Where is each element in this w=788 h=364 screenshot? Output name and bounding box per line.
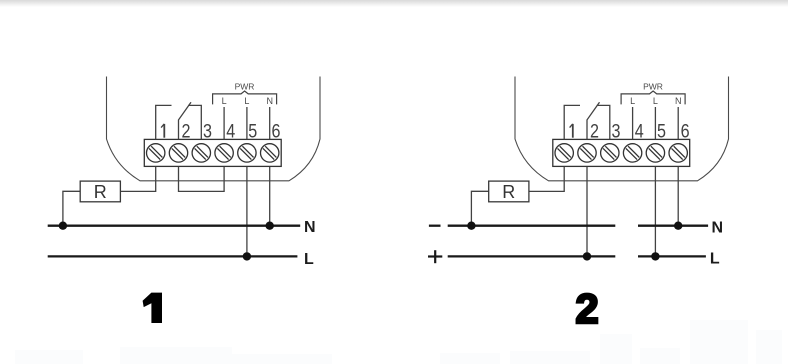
svg-text:5: 5 bbox=[248, 120, 257, 142]
wire stub terminal 4 (diagram 1) bbox=[223, 107, 225, 139]
terminal 1 screw bbox=[147, 144, 165, 162]
svg-text:4: 4 bbox=[226, 120, 235, 142]
node B junction dot (diagram 2) bbox=[467, 222, 475, 230]
plus symbol (diagram 2) bbox=[428, 250, 442, 263]
svg-text:N: N bbox=[304, 219, 316, 236]
resistor R (diagram 1) bbox=[80, 181, 120, 202]
terminal 4 screw (diagram 2) bbox=[623, 144, 641, 162]
svg-text:2: 2 bbox=[181, 120, 190, 142]
wire terminal 2 to plus line (diagram 2) bbox=[586, 162, 588, 256]
wire stub terminal 6 (diagram 1) bbox=[269, 107, 271, 139]
svg-text:5: 5 bbox=[657, 120, 666, 142]
device enclosure (diagram 2) bbox=[515, 77, 729, 181]
terminal 2 screw bbox=[169, 144, 187, 162]
terminal 4 screw bbox=[215, 144, 233, 162]
relay contact bracket terminal 1 (diagram 1) bbox=[156, 105, 172, 139]
L supply line segment (diagram 2) bbox=[638, 255, 706, 257]
svg-text:2: 2 bbox=[575, 285, 598, 332]
svg-text:N: N bbox=[266, 96, 273, 106]
relay switch arm terminal 2 (diagram 1) bbox=[179, 102, 192, 139]
resistor R (diagram 2) bbox=[489, 181, 529, 202]
node junction dot terminal 6 on N line (diagram 2) bbox=[674, 222, 682, 230]
node junction dot terminal 5 on L line (diagram 2) bbox=[651, 252, 659, 260]
svg-text:L: L bbox=[222, 96, 227, 106]
wire terminal 5 to L line (diagram 2) bbox=[654, 162, 656, 256]
relay contact bracket terminal 1 (diagram 2) bbox=[564, 105, 580, 139]
terminal block (diagram 1) bbox=[144, 139, 281, 166]
wire jumper terminal 2 to terminal 4 (diagram 1) bbox=[179, 162, 225, 191]
plus supply line (diagram 2) bbox=[448, 255, 616, 257]
wire resistor R to node A (diagram 1) bbox=[63, 191, 80, 225]
wire terminal 1 to resistor R (diagram 2) bbox=[529, 162, 564, 191]
svg-text:6: 6 bbox=[272, 120, 281, 142]
relay contact bracket terminal 3 (diagram 1) bbox=[188, 105, 201, 139]
minus symbol (diagram 2) bbox=[429, 225, 441, 227]
wire stub terminal 5 (diagram 1) bbox=[246, 107, 248, 139]
node A junction dot (diagram 1) bbox=[59, 222, 67, 230]
svg-text:2: 2 bbox=[590, 120, 599, 142]
terminal 5 screw bbox=[238, 144, 256, 162]
PWR bracket (diagram 2) bbox=[621, 91, 685, 104]
svg-text:L: L bbox=[710, 251, 720, 268]
svg-text:3: 3 bbox=[203, 120, 212, 142]
wire terminal 6 to N line (diagram 1) bbox=[269, 162, 271, 226]
node junction dot terminal 6 on N line (diagram 1) bbox=[266, 222, 274, 230]
minus supply line (diagram 2) bbox=[448, 225, 616, 227]
svg-text:R: R bbox=[94, 182, 107, 202]
terminal 3 screw (diagram 2) bbox=[601, 144, 619, 162]
terminal block (diagram 2) bbox=[553, 139, 690, 166]
svg-text:L: L bbox=[304, 251, 314, 268]
figure label 1 bbox=[143, 293, 162, 323]
terminal 5 screw (diagram 2) bbox=[646, 144, 664, 162]
relay switch arm terminal 2 (diagram 2) bbox=[587, 102, 600, 139]
wire stub terminal 6 (diagram 2) bbox=[677, 107, 679, 139]
svg-text:PWR: PWR bbox=[235, 81, 255, 91]
svg-text:L: L bbox=[653, 96, 658, 106]
terminal 3 screw bbox=[192, 144, 210, 162]
N supply line (diagram 1) bbox=[48, 225, 301, 227]
N supply line segment (diagram 2) bbox=[638, 225, 708, 227]
wire terminal 1 to resistor R (diagram 1) bbox=[120, 162, 155, 191]
wire terminal 5 to L line (diagram 1) bbox=[246, 162, 248, 256]
wire stub terminal 4 (diagram 2) bbox=[632, 107, 634, 139]
svg-text:6: 6 bbox=[681, 120, 690, 142]
terminal 1 screw (diagram 2) bbox=[555, 144, 573, 162]
terminal number labels 1-6 (diagram 2) bbox=[570, 120, 690, 142]
wire stub terminal 5 (diagram 2) bbox=[654, 107, 656, 139]
svg-text:PWR: PWR bbox=[643, 81, 663, 91]
svg-text:4: 4 bbox=[635, 120, 644, 142]
svg-text:N: N bbox=[712, 220, 724, 237]
node junction dot terminal 2 on plus line (diagram 2) bbox=[583, 252, 591, 260]
svg-text:N: N bbox=[675, 96, 682, 106]
terminal number labels 1-6 (diagram 1) bbox=[161, 120, 281, 142]
terminal 6 screw (diagram 2) bbox=[669, 144, 687, 162]
relay contact bracket terminal 3 (diagram 2) bbox=[597, 105, 610, 139]
wire terminal 6 to N line (diagram 2) bbox=[677, 162, 679, 226]
svg-text:L: L bbox=[630, 96, 635, 106]
L supply line (diagram 1) bbox=[48, 255, 298, 257]
PWR bracket (diagram 1) bbox=[213, 91, 277, 104]
svg-text:R: R bbox=[502, 182, 515, 202]
terminal 6 screw bbox=[261, 144, 279, 162]
node junction dot terminal 5 on L line (diagram 1) bbox=[243, 252, 251, 260]
terminal 2 screw (diagram 2) bbox=[578, 144, 596, 162]
svg-text:3: 3 bbox=[612, 120, 621, 142]
svg-text:L: L bbox=[244, 96, 249, 106]
wire resistor R to node B (diagram 2) bbox=[471, 191, 488, 225]
device enclosure (diagram 1) bbox=[107, 77, 321, 181]
